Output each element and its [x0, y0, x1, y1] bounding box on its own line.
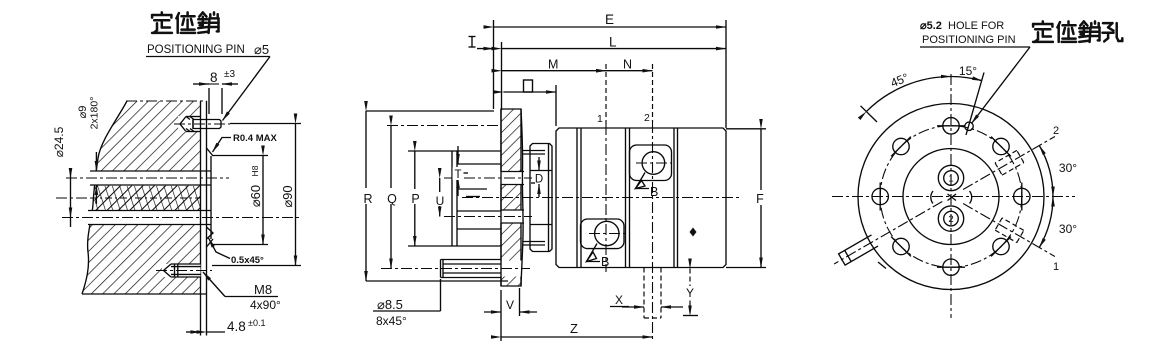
left view: plate back face line — [206, 101, 208, 336]
svg-text:0.5x45°: 0.5x45° — [231, 255, 264, 266]
right view center marks — [931, 191, 972, 204]
M8 hole centerline — [156, 270, 212, 272]
dim ⌀60 extension lines — [213, 156, 268, 245]
svg-text:8x45°: 8x45° — [376, 314, 407, 328]
dim P extensions — [408, 151, 452, 246]
right view port 2 — [938, 206, 963, 231]
svg-text:2: 2 — [1053, 125, 1059, 137]
dim L — [502, 35, 727, 50]
svg-text:V: V — [506, 298, 514, 312]
middle view: port axis centerline 2 — [444, 216, 532, 218]
middle view: bolt circle line top — [387, 125, 500, 127]
svg-text:B: B — [650, 185, 658, 199]
svg-text:2x180°: 2x180° — [89, 97, 101, 130]
svg-text:⌀24.5: ⌀24.5 — [52, 126, 66, 157]
svg-text:R: R — [363, 192, 372, 206]
dim ⌀90 (rotated label) — [280, 185, 295, 207]
svg-text:8: 8 — [210, 70, 218, 85]
svg-text:T: T — [454, 169, 461, 181]
dim X — [610, 293, 683, 307]
arc dim 45° — [866, 70, 951, 111]
dim D — [531, 157, 545, 197]
middle view: flange port holes (white) — [500, 172, 522, 277]
svg-text:2: 2 — [948, 214, 953, 225]
title 定位銷 (drawn strokes) — [152, 12, 218, 33]
svg-text:Y: Y — [686, 286, 694, 300]
right view: +30° radial centerline — [963, 137, 1055, 190]
label 1 (slot) — [1053, 261, 1059, 273]
svg-text:⌀5: ⌀5 — [254, 42, 269, 57]
right view: 15° radial line — [966, 73, 984, 136]
port B circle (bottom) — [595, 221, 619, 245]
dim M — [502, 58, 607, 72]
label 2 and centerline (middle view) — [644, 64, 653, 341]
svg-text:2: 2 — [644, 112, 650, 124]
label R0.4 MAX — [233, 133, 277, 144]
left view: bore openings (white) — [82, 116, 211, 277]
dim P — [409, 151, 421, 246]
left view: upper hole centerline — [66, 177, 229, 179]
title 定位銷孔 (drawn strokes) — [1033, 21, 1122, 42]
svg-text:Z: Z — [570, 321, 578, 336]
leader ⌀5.2 — [920, 47, 1030, 124]
dim R extensions — [366, 111, 508, 281]
right view: arc slot upper (+30°) — [995, 150, 1024, 175]
right view: fitting tab at 210° — [839, 235, 878, 265]
dim O — [504, 80, 557, 92]
port B crosshair (top) — [636, 162, 671, 164]
dim ⌀9 2x180 (rotated labels) — [77, 97, 101, 130]
leader for positioning pin — [146, 57, 270, 121]
left view: mounting face line — [200, 101, 202, 336]
dim V — [484, 288, 537, 316]
right view port 1 — [938, 165, 963, 190]
dim ⌀60 H8 (rotated label) — [248, 165, 263, 207]
dim I — [469, 37, 494, 49]
svg-text:4.8: 4.8 — [227, 319, 246, 334]
right view: tick near tab — [878, 262, 886, 269]
hidden boss below body — [644, 268, 661, 319]
svg-text:L: L — [609, 35, 617, 50]
positioning pin: centerline — [174, 123, 230, 125]
dim ⌀24.5 (rotated label) — [52, 126, 66, 157]
svg-text:4x90°: 4x90° — [250, 298, 281, 312]
right view: ⌀5.2 positioning pin hole — [965, 122, 973, 130]
leader 0.5x45 — [207, 227, 231, 259]
left view: lower hole centerline (long) — [62, 217, 299, 219]
right view: pilot circle — [903, 149, 999, 245]
middle view: main axis — [462, 197, 742, 199]
middle view: port axis centerline 1 — [444, 177, 532, 179]
dim ⌀90 extension lines — [212, 124, 301, 266]
dim ⌀9 line — [95, 152, 97, 204]
dim 4.8 ±0.1 — [186, 318, 265, 334]
left view: wavy break edge (left) — [82, 101, 127, 294]
port B boss (bottom, port 1) — [581, 219, 625, 249]
dim 8 ±3 text — [208, 69, 235, 85]
dim Y — [683, 269, 698, 316]
svg-text:⌀60: ⌀60 — [248, 185, 263, 207]
right view: 45° radial tick — [861, 106, 878, 122]
svg-text:H8: H8 — [250, 165, 260, 176]
svg-text:⌀5.2: ⌀5.2 — [920, 20, 942, 32]
middle view: cylinder bore lines — [530, 171, 552, 225]
port B circle (top) — [642, 152, 665, 175]
label 1 and centerline (middle view) — [597, 64, 606, 272]
middle view: hub bore lines — [457, 164, 501, 229]
label POSITIONING PIN ⌀5 — [147, 42, 269, 57]
svg-text:⌀9: ⌀9 — [77, 106, 89, 119]
svg-text:F: F — [756, 192, 764, 206]
svg-text:Q: Q — [387, 192, 397, 206]
middle view: flange hole edge lines — [501, 172, 524, 224]
svg-text:P: P — [411, 192, 419, 206]
svg-text:B: B — [601, 255, 609, 269]
svg-text:⌀8.5: ⌀8.5 — [377, 297, 403, 312]
svg-text:POSITIONING PIN: POSITIONING PIN — [147, 44, 245, 56]
left view: lower hole edges — [88, 211, 211, 225]
label 0.5x45° — [231, 255, 264, 266]
svg-text:1: 1 — [948, 174, 953, 185]
right view: bolt circle — [880, 126, 1022, 268]
left view: sectioned mounting plate (hatched block) — [82, 101, 201, 294]
right view: 8 mounting holes with ticks — [872, 118, 1030, 276]
leader M8 — [203, 272, 278, 297]
svg-text:15°: 15° — [959, 64, 977, 78]
middle view: mounting bolt hole ⌀8.5 — [441, 260, 502, 278]
svg-text:⌀90: ⌀90 — [280, 185, 295, 207]
dim U — [434, 178, 446, 217]
dim ⌀24.5 line — [70, 168, 72, 227]
right view: horizontal centerline — [832, 196, 1075, 198]
svg-text:POSITIONING PIN: POSITIONING PIN — [922, 34, 1016, 46]
middle view: pilot cylinder — [530, 144, 552, 252]
dim E — [494, 12, 727, 27]
left view: block top break edge — [126, 100, 207, 102]
svg-text:±0.1: ±0.1 — [248, 318, 265, 328]
svg-text:30°: 30° — [1059, 222, 1077, 236]
arc dim 15° — [951, 64, 982, 81]
left view: block bottom edge — [82, 293, 207, 295]
leader and label B (bottom) — [587, 244, 610, 270]
svg-text:30°: 30° — [1059, 161, 1077, 175]
label 2 (slot) — [1053, 125, 1059, 137]
svg-text:1: 1 — [597, 113, 603, 125]
positioning pin: pin body — [186, 117, 221, 132]
arc dim 30° upper — [1039, 146, 1077, 197]
arc dim 30° lower — [1039, 197, 1077, 248]
svg-text:1: 1 — [1053, 261, 1059, 273]
dim 8 ±3 extension lines — [209, 88, 222, 114]
middle view: boot clamp lines — [523, 151, 545, 246]
M8 tapped hole — [164, 264, 201, 277]
middle view: bolt hole centerline — [381, 268, 530, 270]
dim Q — [385, 126, 398, 269]
port B boss (top, port 2) — [630, 145, 672, 181]
right view: outer circle — [858, 104, 1044, 290]
label ⌀5.2 HOLE FOR POSITIONING PIN — [920, 20, 1016, 46]
svg-text:±3: ±3 — [224, 69, 235, 80]
left view: upper hole ⌀9 edges — [90, 171, 211, 185]
svg-text:N: N — [623, 58, 632, 72]
dim Z — [501, 290, 653, 341]
dim N — [606, 58, 653, 72]
right view: arc slot lower (-30°) — [995, 218, 1024, 243]
label M8 4x90° — [250, 282, 281, 312]
extension lines top dims — [494, 20, 727, 128]
middle view: flange plate hatch — [501, 109, 521, 286]
dim ⌀60 line — [262, 156, 264, 245]
leader R0.4 — [213, 138, 232, 153]
svg-text:R0.4 MAX: R0.4 MAX — [233, 133, 277, 144]
right view: 210° radial centerline — [834, 202, 942, 265]
svg-text:M8: M8 — [254, 282, 272, 297]
svg-text:U: U — [436, 194, 445, 208]
dim F — [754, 129, 767, 268]
left view: sleeve mid dotted line — [56, 197, 200, 199]
right view: vertical centerline — [950, 74, 952, 318]
svg-text:E: E — [605, 12, 614, 27]
right view: -30° radial centerline — [963, 204, 1055, 257]
svg-text:D: D — [535, 174, 543, 186]
svg-text:X: X — [615, 293, 623, 307]
dim F extensions — [726, 129, 766, 268]
dim R — [360, 111, 374, 281]
diamond mark — [690, 228, 697, 237]
positioning pin: drilled hole cone — [180, 117, 201, 132]
middle view: section ring lines — [577, 128, 678, 268]
dim 8 ±3 arrows — [193, 83, 238, 85]
middle view: flange left face — [500, 109, 502, 286]
svg-text:M: M — [548, 58, 558, 72]
dim T — [453, 146, 464, 196]
left view: cross-hatched sleeve strip — [95, 186, 201, 210]
svg-text:HOLE FOR: HOLE FOR — [948, 20, 1004, 32]
port B crosshair (bottom) — [589, 233, 625, 235]
left view: ⌀60 H8 recess face — [207, 148, 214, 247]
dim ⌀90 line — [295, 124, 297, 266]
middle view: flange wavy right edge — [521, 109, 523, 286]
middle view: coupling hub outline — [452, 151, 501, 246]
dim ⌀8.5 8x45° — [373, 279, 441, 328]
middle view: body outline — [556, 128, 726, 268]
leader and label B (top) — [636, 173, 659, 200]
